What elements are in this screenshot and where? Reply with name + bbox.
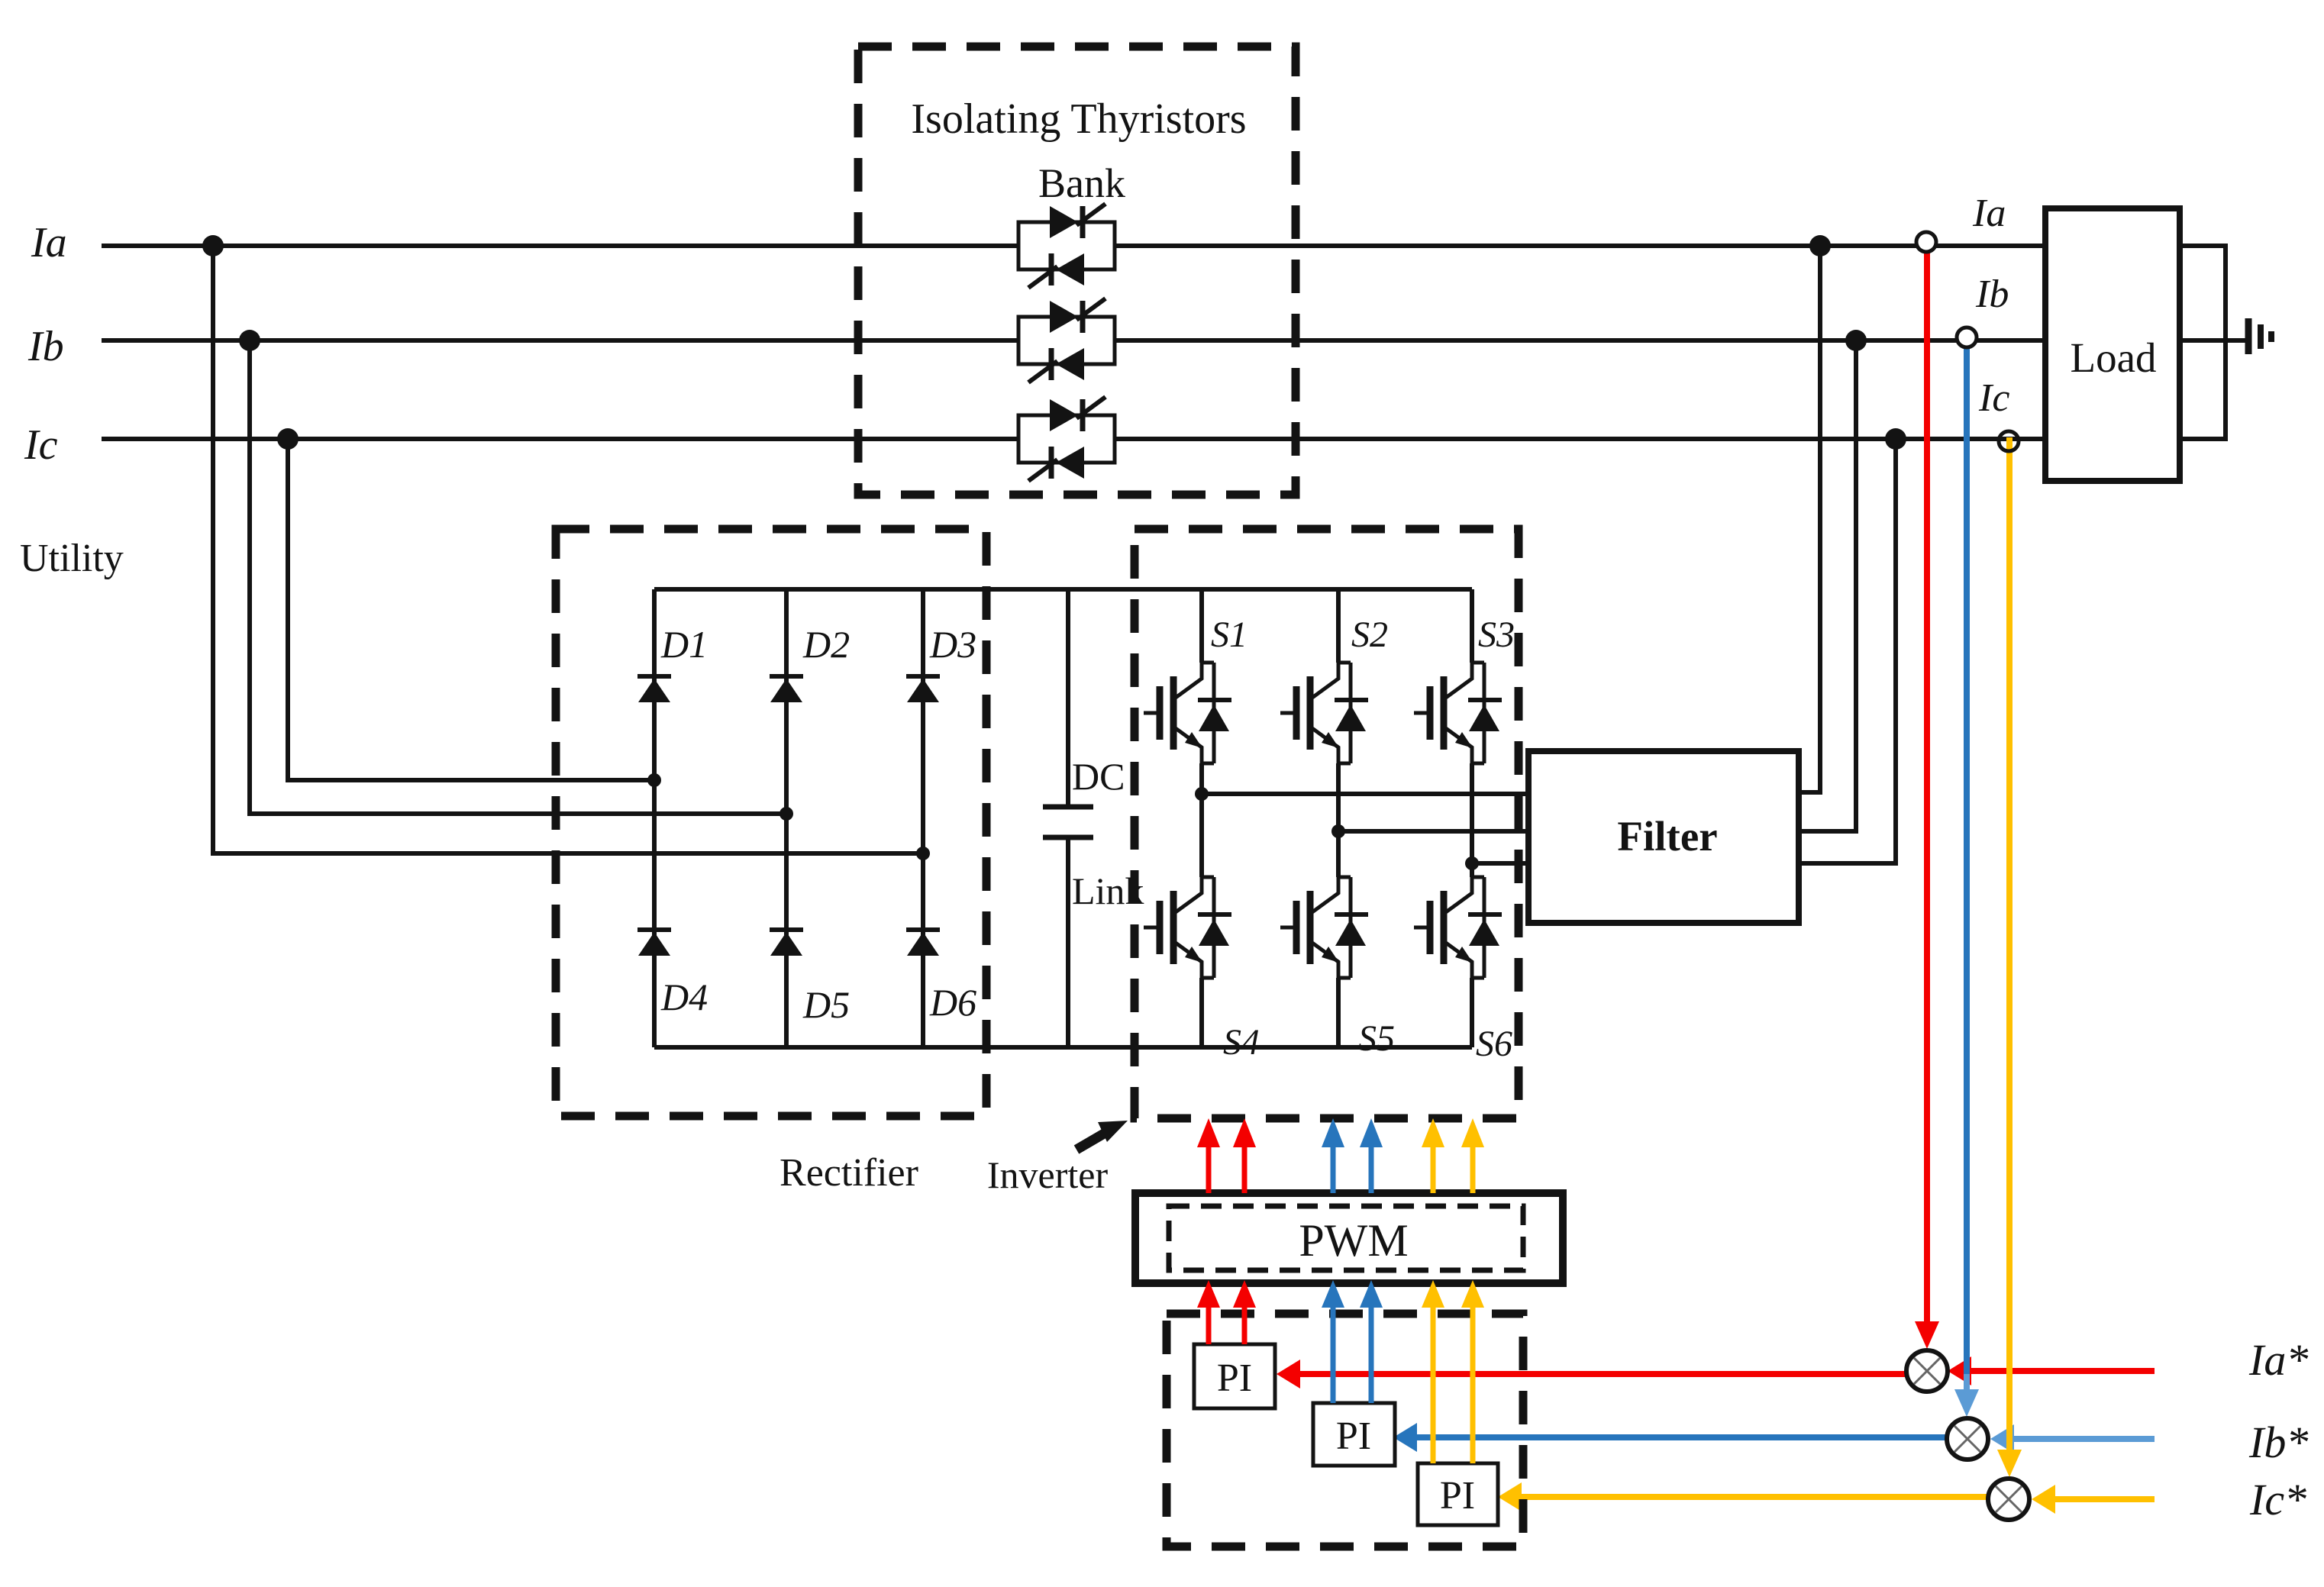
wire Ic drop to rectifier leg 1 (288, 439, 654, 780)
arrow pointing to inverter box (1076, 1121, 1128, 1150)
svg-text:PI: PI (1336, 1414, 1371, 1458)
svg-text:S5: S5 (1358, 1018, 1395, 1059)
box current controller (dashed) (1167, 1314, 1523, 1547)
wire phase Ib (102, 338, 2045, 343)
transistor S2 (IGBT) (1280, 663, 1368, 763)
transistor S4 (IGBT) (1144, 877, 1231, 978)
svg-text:Ia*: Ia* (2248, 1335, 2308, 1385)
svg-text:Filter: Filter (1617, 813, 1717, 860)
wire load right bracket (2180, 246, 2226, 439)
svg-text:Inverter: Inverter (987, 1153, 1109, 1196)
transistor S1 (IGBT) (1144, 663, 1231, 763)
gate arrows PWM to inverter (red pair) (1197, 1118, 1256, 1193)
svg-text:Ic*: Ic* (2249, 1475, 2306, 1524)
wire Ia drop to rectifier leg 3 (213, 246, 923, 853)
wire error a to PI1 (red arrow) (1277, 1360, 1906, 1389)
capacitor DC link plates (1043, 807, 1093, 837)
junction dot leg2 output (1331, 824, 1345, 838)
wire rectifier leg 2 column (784, 589, 789, 1047)
thyristor pair TH3 (phase c) (1018, 397, 1115, 481)
svg-text:Rectifier: Rectifier (780, 1151, 918, 1195)
gate arrows PI1 to PWM (red pair) (1197, 1280, 1256, 1344)
thyristor pair TH1 (phase a) (1018, 204, 1115, 288)
wire Ia* reference (red, from right into summer A) (1948, 1356, 2155, 1385)
junction dot leg1 output (1195, 787, 1209, 801)
wire filter output a (up to phase a) (1799, 246, 1820, 792)
diode D1 (637, 676, 671, 702)
svg-text:S4: S4 (1223, 1022, 1260, 1063)
wire rectifier leg 1 column (652, 589, 657, 1047)
summer C (circle-X) (1988, 1479, 2029, 1520)
svg-text:S6: S6 (1476, 1024, 1512, 1064)
svg-text:S2: S2 (1351, 614, 1388, 655)
wire inverter output phase b (1338, 829, 1528, 834)
svg-text:D6: D6 (929, 981, 976, 1024)
wire Ib* reference (light blue, from right into summer B) (1990, 1424, 2155, 1453)
capacitor DC link lead bottom (1066, 837, 1070, 1047)
svg-text:D1: D1 (660, 623, 708, 666)
svg-text:Ic: Ic (1978, 376, 2009, 420)
svg-text:Utility: Utility (20, 537, 124, 580)
thyristor pair TH2 (phase b) (1018, 298, 1115, 382)
transistor S3 (IGBT) (1414, 663, 1502, 763)
wire inverter leg 2 column (1336, 589, 1341, 1047)
box Rectifier (dashed) (556, 529, 986, 1116)
sensor circle phase b (1957, 327, 1977, 347)
gate arrows PI3 to PWM (yellow pair) (1422, 1280, 1484, 1463)
wire DC bus bottom rail (654, 1045, 1472, 1050)
box PI3 (1418, 1463, 1498, 1525)
svg-text:Ia: Ia (1972, 192, 2006, 235)
junction dot Ib tap (239, 330, 260, 351)
svg-text:Ib: Ib (27, 323, 64, 370)
ground symbol (2248, 318, 2271, 354)
svg-text:Isolating Thyristors: Isolating Thyristors (911, 95, 1246, 143)
junction dot Ic tap (277, 428, 299, 450)
summer B (circle-X) (1947, 1418, 1988, 1460)
box Load (2045, 208, 2180, 481)
wire feedback Ia (red vertical) (1915, 252, 1939, 1349)
box PI2 (1313, 1403, 1395, 1466)
junction dot rectifier leg3 input (916, 847, 930, 860)
wire filter output b (up to phase b) (1799, 340, 1856, 831)
wire inverter leg 1 column (1199, 589, 1204, 1047)
gate arrows PWM to inverter (blue pair) (1322, 1118, 1383, 1193)
wire inverter output phase a (1202, 792, 1528, 796)
transistor S5 (IGBT) (1280, 877, 1368, 978)
svg-text:PI: PI (1217, 1356, 1252, 1400)
sensor circle phase a (1916, 232, 1936, 252)
diode D6 (906, 930, 940, 956)
wire phase Ia (102, 244, 2045, 248)
capacitor DC link lead top (1066, 589, 1070, 807)
box PWM (solid) (1135, 1193, 1563, 1283)
diode D2 (770, 676, 803, 702)
wire inverter leg 3 column (1470, 589, 1474, 1047)
svg-text:S3: S3 (1478, 614, 1515, 655)
svg-text:Ib: Ib (1975, 273, 2009, 316)
wire Ic* reference (yellow, from right into summer C) (2032, 1485, 2155, 1514)
svg-text:PI: PI (1440, 1474, 1475, 1518)
junction dot Ia tap (202, 235, 224, 256)
svg-text:Ia: Ia (31, 219, 67, 266)
svg-text:Bank: Bank (1038, 160, 1125, 206)
wire phase Ic (102, 437, 2045, 441)
svg-text:DC: DC (1072, 755, 1125, 798)
svg-text:D3: D3 (929, 623, 976, 666)
summer A (circle-X) (1906, 1350, 1948, 1392)
junction dot rectifier leg2 input (780, 807, 793, 821)
box PI1 (1194, 1344, 1275, 1408)
transistor S6 (IGBT) (1414, 877, 1502, 978)
box Filter (1528, 751, 1799, 923)
junction dot rectifier leg1 input (647, 773, 661, 787)
svg-text:D4: D4 (660, 976, 708, 1018)
svg-text:D5: D5 (802, 983, 850, 1026)
svg-text:Load: Load (2070, 334, 2156, 381)
diode D5 (770, 930, 803, 956)
junction dot leg3 output (1465, 856, 1479, 870)
wire DC bus top rail (654, 587, 1472, 592)
gate arrows PWM to inverter (yellow pair) (1422, 1118, 1484, 1193)
wire error b to PI2 (blue arrow) (1393, 1423, 1947, 1452)
wire error c to PI3 (yellow arrow) (1498, 1482, 1988, 1511)
svg-text:Ib*: Ib* (2248, 1418, 2308, 1467)
wire Ib drop to rectifier leg 2 (250, 340, 786, 814)
wire feedback Ic (yellow vertical) (1997, 437, 2022, 1477)
diode D4 (637, 930, 671, 956)
svg-text:PWM: PWM (1299, 1215, 1408, 1266)
box Isolating Thyristors Bank (dashed) (858, 47, 1296, 495)
diode D3 (906, 676, 940, 702)
wire filter output c (up to phase c) (1799, 439, 1896, 863)
svg-text:S1: S1 (1211, 614, 1248, 655)
junction dot filter-c on phase c (1885, 428, 1906, 450)
junction dot filter-a on phase a (1809, 235, 1831, 256)
gate arrows PI2 to PWM (blue pair) (1322, 1280, 1383, 1403)
wire rectifier leg 3 column (921, 589, 925, 1047)
svg-text:D2: D2 (802, 623, 850, 666)
wire inverter output phase c (1472, 861, 1528, 866)
junction dot filter-b on phase b (1845, 330, 1867, 351)
wire load neutral to ground (2180, 338, 2245, 343)
sensor circle phase c (1999, 431, 2019, 451)
box PWM inner (dashed) (1169, 1206, 1523, 1270)
svg-text:Ic: Ic (24, 421, 58, 469)
box Inverter (dashed) (1135, 529, 1519, 1118)
wire feedback Ib (blue vertical) (1954, 347, 1979, 1417)
